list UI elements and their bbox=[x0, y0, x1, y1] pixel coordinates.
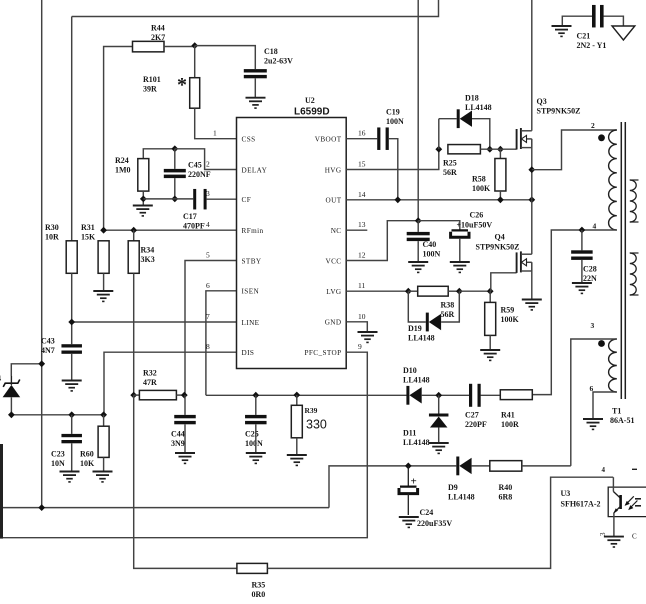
wire winding pin 6 to ground bbox=[593, 392, 617, 419]
svg-text:R30: R30 bbox=[45, 223, 59, 232]
svg-text:C17: C17 bbox=[183, 212, 197, 221]
capacitor C40 bbox=[407, 232, 441, 259]
svg-text:CF: CF bbox=[242, 196, 252, 204]
svg-text:9: 9 bbox=[358, 342, 362, 351]
wire C27 to R41 bbox=[481, 394, 501, 396]
capacitor C24 electrolytic bbox=[399, 466, 452, 528]
wire C26 top lead bbox=[418, 221, 460, 230]
wire Q3 source bbox=[531, 139, 533, 200]
wire D19 branch left bbox=[408, 291, 426, 322]
wire R44 to C18 bbox=[164, 46, 195, 48]
svg-text:16: 16 bbox=[358, 129, 366, 138]
transformer aux winding bbox=[609, 339, 617, 392]
svg-text:*: * bbox=[177, 74, 187, 96]
wire RFmin row bbox=[104, 229, 237, 231]
svg-text:C24: C24 bbox=[420, 508, 434, 517]
svg-text:7: 7 bbox=[206, 312, 210, 321]
svg-text:C44: C44 bbox=[171, 430, 185, 439]
svg-text:LL4148: LL4148 bbox=[448, 493, 475, 502]
svg-text:100K: 100K bbox=[472, 184, 491, 193]
svg-text:DELAY: DELAY bbox=[242, 166, 268, 174]
svg-text:100N: 100N bbox=[386, 117, 404, 126]
svg-text:C18: C18 bbox=[264, 47, 278, 56]
svg-text:D10: D10 bbox=[403, 366, 417, 375]
capacitor C28 bbox=[571, 230, 597, 283]
svg-text:Q4: Q4 bbox=[495, 233, 505, 242]
node R31 top junction bbox=[100, 227, 107, 234]
ground R31 bbox=[93, 291, 113, 301]
svg-text:0R0: 0R0 bbox=[252, 590, 266, 599]
svg-text:NC: NC bbox=[331, 227, 342, 235]
capacitor C21 bbox=[577, 5, 607, 50]
svg-text:3: 3 bbox=[206, 189, 210, 198]
svg-text:10: 10 bbox=[358, 312, 366, 321]
ground R24 bbox=[133, 206, 153, 216]
svg-text:C21: C21 bbox=[577, 32, 591, 41]
svg-text:39R: 39R bbox=[143, 85, 157, 94]
node R44/C18/R101 junction bbox=[191, 42, 198, 49]
svg-text:11: 11 bbox=[358, 281, 365, 290]
svg-text:R41: R41 bbox=[501, 411, 515, 420]
ground opto emitter bbox=[604, 537, 624, 547]
resistor R32 bbox=[134, 369, 177, 400]
svg-text:470PF: 470PF bbox=[183, 222, 205, 231]
svg-text:220uF35V: 220uF35V bbox=[417, 519, 452, 528]
svg-text:LL4148: LL4148 bbox=[465, 103, 492, 112]
svg-text:2: 2 bbox=[591, 121, 595, 130]
ground R39 bbox=[287, 455, 307, 465]
wire C40 to ground bbox=[417, 241, 419, 262]
node D10/D11 junction bbox=[422, 392, 469, 399]
svg-text:L6599D: L6599D bbox=[294, 107, 330, 118]
node R25 left junction bbox=[435, 146, 442, 153]
svg-text:100N: 100N bbox=[245, 439, 263, 448]
svg-text:2u2-63V: 2u2-63V bbox=[264, 57, 293, 66]
svg-text:4: 4 bbox=[206, 220, 210, 229]
ground Q4 bbox=[522, 300, 542, 310]
capacitor C27 bbox=[465, 384, 487, 429]
node R38 right junction bbox=[448, 288, 463, 295]
chassis ground C21 right bbox=[612, 26, 635, 40]
svg-text:100R: 100R bbox=[501, 420, 519, 429]
svg-text:VCC: VCC bbox=[326, 257, 342, 265]
wire R25 to Q3 gate bbox=[480, 148, 516, 150]
svg-text:R101: R101 bbox=[143, 75, 161, 84]
svg-text:U2: U2 bbox=[305, 96, 315, 105]
svg-text:13: 13 bbox=[358, 220, 366, 229]
svg-text:T1: T1 bbox=[612, 407, 621, 416]
wire CF row bbox=[143, 198, 193, 200]
diode D9 bbox=[448, 457, 475, 502]
svg-text:22N: 22N bbox=[583, 274, 597, 283]
svg-text:R32: R32 bbox=[143, 369, 157, 378]
resistor R44 bbox=[133, 24, 166, 52]
node R58 top junction bbox=[497, 146, 504, 153]
wire R58 bottom lead bbox=[499, 191, 501, 200]
wire opto emitter bbox=[613, 513, 615, 537]
svg-text:R59: R59 bbox=[501, 306, 515, 315]
transformer secondary winding lower bbox=[630, 253, 639, 295]
ground C26 bbox=[450, 262, 470, 272]
ground C21 left bbox=[552, 26, 572, 36]
svg-text:47R: 47R bbox=[143, 378, 157, 387]
ground C43 bbox=[62, 381, 82, 391]
svg-text:LL4148: LL4148 bbox=[403, 438, 430, 447]
node C24 junction bbox=[405, 463, 412, 470]
svg-text:2N2 - Y1: 2N2 - Y1 bbox=[577, 41, 607, 50]
svg-text:STP9NK50Z: STP9NK50Z bbox=[537, 107, 581, 116]
node C40 junction bbox=[415, 217, 422, 224]
wire D18 branch right bbox=[472, 119, 490, 150]
transformer secondary winding upper bbox=[630, 180, 639, 222]
diode D18 bbox=[439, 94, 492, 129]
svg-text:220NF: 220NF bbox=[188, 170, 211, 179]
svg-text:C28: C28 bbox=[583, 265, 597, 274]
wire PFC_STOP drop bbox=[2, 352, 367, 538]
svg-text:GND: GND bbox=[325, 319, 342, 327]
svg-text:Q3: Q3 bbox=[537, 97, 547, 106]
wire C40 top lead bbox=[417, 221, 419, 232]
wire C19 to OUT node bbox=[389, 139, 398, 200]
wire C23 to ground bbox=[71, 443, 73, 471]
svg-text:3K3: 3K3 bbox=[141, 255, 155, 264]
wire R24 bottom bbox=[142, 191, 144, 205]
svg-text:10N: 10N bbox=[51, 459, 65, 468]
svg-text:C40: C40 bbox=[423, 240, 437, 249]
left edge connector bar bbox=[0, 444, 3, 539]
resistor R38 bbox=[408, 286, 454, 319]
diode D11 bbox=[403, 395, 448, 447]
wire R31 to ground bbox=[103, 273, 105, 291]
wire C21 row bbox=[562, 16, 592, 26]
svg-text:6: 6 bbox=[206, 281, 210, 290]
svg-text:10R: 10R bbox=[45, 233, 59, 242]
wire R101 to CSS pin 1 bbox=[195, 108, 237, 139]
wire winding-2 link bbox=[532, 130, 617, 170]
svg-text:2K7: 2K7 bbox=[151, 33, 165, 42]
svg-text:4: 4 bbox=[602, 466, 606, 474]
opto pin 3 label bbox=[599, 532, 607, 536]
capacitor C19 bbox=[377, 108, 404, 150]
svg-text:R34: R34 bbox=[141, 246, 155, 255]
transformer phase dot aux bbox=[598, 340, 605, 347]
ground R60 bbox=[93, 472, 113, 482]
wire left vertical rail bbox=[41, 0, 43, 508]
svg-text:R35: R35 bbox=[252, 581, 266, 590]
capacitor C43 bbox=[41, 337, 82, 356]
ground R59 bbox=[480, 350, 500, 360]
svg-text:C23: C23 bbox=[51, 450, 65, 459]
svg-text:R39: R39 bbox=[305, 406, 318, 415]
wire C25 to ground bbox=[255, 424, 257, 453]
U2 right pin labels bbox=[304, 129, 365, 357]
ground C23 bbox=[60, 472, 80, 482]
svg-text:LL4148: LL4148 bbox=[403, 376, 430, 385]
node winding pin 2 label bbox=[591, 121, 595, 130]
ground winding pin 6 bbox=[583, 419, 603, 429]
wire C44 to ground bbox=[184, 424, 186, 453]
svg-text:2: 2 bbox=[206, 160, 210, 169]
ground C24 bbox=[399, 517, 419, 527]
svg-text:4N7: 4N7 bbox=[41, 346, 55, 355]
transformer T1 label bbox=[610, 407, 634, 426]
wire D11 to ground bbox=[438, 427, 440, 443]
wire R59 to ground bbox=[489, 335, 491, 350]
node R24/C45 bottom junction bbox=[140, 196, 178, 203]
svg-text:SFH617A-2: SFH617A-2 bbox=[561, 500, 601, 509]
wire C17 to CF pin 3 bbox=[207, 198, 237, 200]
svg-text:VBOOT: VBOOT bbox=[315, 136, 342, 144]
capacitor C23 bbox=[51, 415, 82, 468]
node winding pin 3 label bbox=[591, 321, 595, 330]
wire D9 to R40 bbox=[472, 465, 490, 467]
svg-text:5: 5 bbox=[206, 251, 210, 260]
wire C43 to ground bbox=[71, 354, 73, 381]
resistor R24 bbox=[115, 156, 149, 191]
op-amp U2 L6599D body bbox=[237, 96, 347, 369]
svg-text:6R8: 6R8 bbox=[499, 493, 513, 502]
zener diode D4 bbox=[0, 374, 20, 397]
svg-text:PFC_STOP: PFC_STOP bbox=[304, 349, 341, 357]
wire Q4 gate path bbox=[491, 273, 517, 291]
wire C28 to ground bbox=[581, 260, 583, 283]
svg-text:C25: C25 bbox=[245, 430, 259, 439]
svg-text:C27: C27 bbox=[465, 411, 479, 420]
wire OUT row bbox=[346, 199, 532, 201]
wire R30 bottom lead bbox=[71, 273, 73, 344]
node C23 bus junction bbox=[68, 411, 75, 418]
resistor R34 bbox=[128, 230, 155, 273]
wire zener bottom lead bbox=[10, 397, 12, 415]
transistor Q3 bbox=[517, 97, 581, 150]
svg-text:ISEN: ISEN bbox=[242, 288, 260, 296]
resistor R35 bbox=[237, 563, 268, 599]
svg-text:D18: D18 bbox=[465, 94, 479, 103]
svg-text:C45: C45 bbox=[188, 161, 202, 170]
wire top supply rail bbox=[72, 0, 439, 17]
node R58 bottom junction bbox=[497, 196, 504, 203]
node R25 right junction bbox=[486, 146, 493, 153]
resistor R101 bbox=[143, 46, 200, 109]
node R34 top junction bbox=[130, 227, 137, 234]
capacitor C44 bbox=[171, 395, 196, 448]
wire Q3 drain bbox=[531, 0, 533, 131]
svg-text:R44: R44 bbox=[151, 24, 165, 33]
opto pin 4 label bbox=[602, 466, 606, 474]
wire D19 branch right bbox=[441, 291, 459, 322]
wire Q4 source bbox=[531, 262, 533, 299]
transformer core bbox=[621, 122, 625, 399]
svg-text:R40: R40 bbox=[499, 483, 513, 492]
ground C40 bbox=[408, 262, 428, 272]
diode D10 bbox=[403, 366, 430, 405]
svg-text:56R: 56R bbox=[441, 310, 455, 319]
node R60 bus junction bbox=[100, 411, 107, 418]
svg-text:R38: R38 bbox=[441, 301, 455, 310]
node C43 junction bbox=[68, 319, 75, 326]
node R32 right junction bbox=[176, 392, 187, 399]
ground C44 bbox=[175, 453, 195, 463]
capacitor C25 bbox=[245, 395, 267, 448]
svg-text:12: 12 bbox=[358, 251, 366, 260]
node R39 junction bbox=[293, 392, 300, 399]
wire C18 to ground bbox=[254, 78, 256, 97]
wire bottom-left bus bbox=[11, 414, 103, 416]
svg-text:1M0: 1M0 bbox=[115, 166, 131, 175]
svg-text:STBY: STBY bbox=[242, 257, 262, 265]
U2 left pin labels bbox=[206, 129, 268, 357]
node C45 top junction bbox=[171, 145, 178, 152]
svg-text:4: 4 bbox=[0, 374, 1, 383]
svg-text:15K: 15K bbox=[81, 233, 96, 242]
wire STBY to node bbox=[185, 261, 237, 396]
svg-text:220PF: 220PF bbox=[465, 420, 487, 429]
wire R24 top bbox=[143, 149, 175, 159]
wire LVG row bbox=[346, 290, 408, 292]
wire R35 to opto bbox=[267, 477, 613, 568]
wire ISEN drop bbox=[206, 291, 237, 396]
svg-text:R31: R31 bbox=[81, 223, 95, 232]
capacitor C45 bbox=[164, 149, 211, 199]
wire C18 top lead bbox=[195, 46, 256, 70]
wire D18 branch left bbox=[438, 119, 440, 150]
wire zener top branch bbox=[11, 364, 41, 376]
wire C26 to ground bbox=[459, 239, 461, 262]
ground U2 GND pin bbox=[358, 332, 378, 342]
wire R35 input drop bbox=[134, 395, 237, 568]
svg-text:1: 1 bbox=[213, 129, 217, 138]
wire R30 top lead bbox=[71, 17, 73, 241]
opto led fragment bbox=[632, 469, 641, 540]
svg-text:OUT: OUT bbox=[326, 197, 342, 205]
node R32 left junction bbox=[130, 392, 137, 399]
node Q3 source junction bbox=[528, 166, 535, 173]
svg-text:8: 8 bbox=[206, 342, 210, 351]
capacitor C26 electrolytic bbox=[451, 211, 493, 238]
node bottom rail junction bbox=[38, 504, 45, 511]
svg-text:LL4148: LL4148 bbox=[408, 334, 435, 343]
svg-text:C19: C19 bbox=[386, 108, 400, 117]
svg-text:LINE: LINE bbox=[242, 319, 260, 327]
svg-text:HVG: HVG bbox=[325, 166, 342, 174]
svg-text:R58: R58 bbox=[472, 175, 486, 184]
resistor R41 bbox=[500, 390, 532, 429]
resistor R25 bbox=[443, 145, 480, 177]
resistor R30 bbox=[45, 223, 77, 273]
svg-text:D11: D11 bbox=[403, 429, 416, 438]
svg-text:R25: R25 bbox=[443, 159, 457, 168]
capacitor C18 bbox=[244, 47, 293, 78]
resistor R60 bbox=[80, 415, 109, 468]
wire VCC jog bbox=[346, 221, 418, 261]
svg-text:100N: 100N bbox=[423, 250, 441, 259]
diode D19 bbox=[408, 313, 441, 343]
svg-text:C43: C43 bbox=[41, 337, 55, 346]
svg-text:CSS: CSS bbox=[242, 136, 256, 144]
resistor R31 bbox=[81, 223, 109, 273]
wire R60 to ground bbox=[103, 457, 105, 471]
wire R40 to winding 3 bbox=[522, 465, 571, 467]
wire winding pin 3 drop bbox=[571, 339, 617, 466]
resistor R59 bbox=[485, 291, 520, 335]
wire bottom rail bbox=[2, 507, 329, 509]
wire R44 left branch bbox=[104, 47, 133, 231]
wire feedback row bbox=[206, 394, 407, 396]
wire DIS row bbox=[104, 352, 237, 415]
transformer primary winding bbox=[609, 130, 617, 230]
svg-text:3N9: 3N9 bbox=[171, 439, 185, 448]
node zener top junction bbox=[38, 360, 45, 367]
wire winding pin 4 row bbox=[532, 230, 617, 395]
svg-text:3: 3 bbox=[599, 532, 607, 536]
node C25 junction bbox=[252, 392, 259, 399]
resistor R58 bbox=[472, 149, 506, 193]
svg-text:U3: U3 bbox=[561, 489, 571, 498]
node C28 junction bbox=[579, 222, 597, 234]
pin 10 GND stub bbox=[346, 322, 367, 332]
svg-text:C26: C26 bbox=[470, 211, 484, 220]
svg-text:STP9NK50Z: STP9NK50Z bbox=[476, 243, 520, 252]
svg-text:14: 14 bbox=[358, 190, 366, 199]
pin 13 NC stub bbox=[346, 229, 367, 231]
svg-text:R60: R60 bbox=[80, 450, 94, 459]
node OUT/C19 junction bbox=[394, 196, 401, 203]
svg-text:10K: 10K bbox=[80, 459, 95, 468]
svg-text:DIS: DIS bbox=[242, 349, 255, 357]
wire C21 right lead bbox=[604, 16, 624, 26]
capacitor C17 bbox=[183, 189, 207, 231]
node winding pin 6 label bbox=[590, 384, 594, 393]
svg-text:15: 15 bbox=[358, 160, 366, 169]
svg-text:3: 3 bbox=[591, 321, 595, 330]
svg-text:R24: R24 bbox=[115, 156, 129, 165]
svg-text:86A-51: 86A-51 bbox=[610, 416, 634, 425]
svg-text:LVG: LVG bbox=[326, 288, 341, 296]
opto phototransistor bbox=[613, 477, 637, 513]
svg-text:56R: 56R bbox=[443, 168, 457, 177]
svg-text:RFmin: RFmin bbox=[242, 227, 264, 235]
ground C28 bbox=[572, 283, 592, 293]
wire D9 row left bbox=[329, 466, 456, 508]
node R38 left junction bbox=[405, 288, 412, 295]
wire R34 bottom lead bbox=[133, 273, 135, 395]
opto U3 box bbox=[561, 487, 646, 516]
node R59 top junction bbox=[487, 288, 494, 295]
wire VCC supply drop bbox=[417, 0, 419, 221]
svg-text:D9: D9 bbox=[448, 483, 458, 492]
svg-text:330: 330 bbox=[306, 418, 327, 432]
svg-text:D19: D19 bbox=[408, 324, 422, 333]
wire Q4 drain bbox=[531, 200, 533, 254]
wire R39 to ground bbox=[296, 438, 298, 455]
node OUT/Q3-source junction bbox=[528, 196, 535, 203]
svg-text:4: 4 bbox=[593, 222, 597, 231]
wire HVG row bbox=[346, 149, 439, 169]
resistor R39 bbox=[291, 395, 327, 438]
wire LVG to R59 node bbox=[459, 290, 490, 292]
svg-text:100K: 100K bbox=[501, 315, 520, 324]
transformer phase dot primary bbox=[598, 134, 605, 141]
ground C25 bbox=[246, 453, 266, 463]
ground D11 bbox=[429, 443, 449, 453]
wire DELAY entry bbox=[175, 149, 237, 170]
node zener bus junction bbox=[8, 411, 15, 418]
svg-text:C: C bbox=[632, 533, 637, 541]
wire LINE row bbox=[72, 321, 237, 323]
ground C18 bbox=[246, 98, 266, 108]
wire Q4 gate lead bbox=[489, 290, 492, 292]
resistor R40 bbox=[490, 461, 522, 502]
